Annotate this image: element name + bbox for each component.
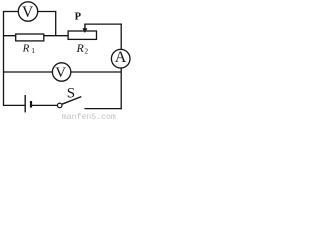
svg-text:P: P xyxy=(75,12,82,23)
wire: bottom left segment to battery xyxy=(3,104,25,106)
wire: vertical drop from V1 to main rail xyxy=(55,11,57,36)
wire: right vertical from elbow to ammeter xyxy=(120,24,122,50)
voltmeter V1 (top, across R1) xyxy=(18,2,37,21)
wire: top row right segment from voltmeter xyxy=(38,11,56,13)
battery cell: long plate xyxy=(24,95,26,112)
wire: left rail vertical xyxy=(3,12,5,106)
resistor R1 xyxy=(16,34,44,41)
rheostat R2 xyxy=(68,31,96,39)
wire: battery to switch xyxy=(32,104,58,106)
switch S pivot circle xyxy=(57,103,62,108)
svg-text:manfen5.com: manfen5.com xyxy=(62,112,116,120)
slider arrow of rheostat xyxy=(82,24,87,33)
svg-text:R1: R1 xyxy=(22,42,36,55)
wire: middle row left segment to voltmeter V2 xyxy=(3,71,53,73)
wire: main rail xyxy=(3,35,68,37)
switch S blade (open) xyxy=(62,97,81,105)
svg-text:V: V xyxy=(22,4,34,21)
wire: slider elbow horizontal xyxy=(85,23,122,25)
battery cell: short thick plate xyxy=(30,101,32,108)
wire: bottom right segment from switch to corner xyxy=(84,108,121,110)
wire: middle row right segment from V2 to right rail xyxy=(71,71,121,73)
svg-text:V: V xyxy=(55,65,66,81)
wire: right vertical from ammeter down to bottom corner xyxy=(120,68,122,109)
svg-text:S: S xyxy=(67,85,75,101)
svg-text:A: A xyxy=(115,49,127,66)
wire: top row left segment to voltmeter xyxy=(3,11,18,13)
ammeter A xyxy=(111,49,130,68)
svg-text:R2: R2 xyxy=(76,41,89,56)
voltmeter V2 (across battery branch) xyxy=(52,63,70,81)
